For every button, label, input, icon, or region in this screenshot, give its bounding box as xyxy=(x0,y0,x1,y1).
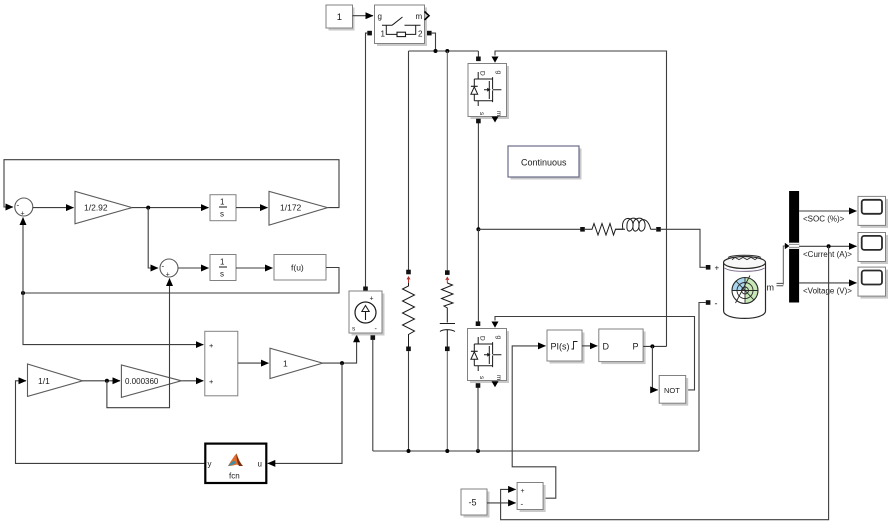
svg-text:P: P xyxy=(633,342,639,352)
ground rail xyxy=(373,450,699,452)
breaker switch icon xyxy=(382,17,421,34)
wire bus down to R branch top xyxy=(408,51,410,270)
wire I1 to gain 1/172 xyxy=(236,207,268,209)
node N1 xyxy=(340,361,344,365)
NOT block xyxy=(662,378,689,406)
powergui Continuous block xyxy=(511,149,582,180)
svg-text:u: u xyxy=(258,460,262,469)
battery - port square xyxy=(706,300,711,305)
svg-text:g: g xyxy=(378,12,382,21)
M2 gate arrow from NOT xyxy=(495,317,695,390)
wire f(u) output loop down-left xyxy=(23,268,339,294)
svg-text:Continuous: Continuous xyxy=(521,158,567,168)
svg-text:m: m xyxy=(416,12,423,21)
svg-text:+: + xyxy=(209,341,214,350)
Fcn block f(u) xyxy=(274,255,326,281)
svg-text:PI(s): PI(s) xyxy=(551,342,570,352)
svg-text:1/172: 1/172 xyxy=(280,203,302,213)
wire bus to scope Voltage xyxy=(799,282,856,284)
wire voltage source - to rail xyxy=(372,340,374,451)
svg-text:+: + xyxy=(21,211,25,218)
wire P output to node N3 xyxy=(643,345,666,347)
battery block xyxy=(724,255,766,318)
series RL branch (resistor + inductor) xyxy=(585,218,656,235)
svg-text:m: m xyxy=(767,283,775,293)
bus signal glyph xyxy=(777,283,784,285)
R branch (series RLC branch R) xyxy=(403,270,415,351)
wire feedback loop from gain 1/172 to sum S1 xyxy=(4,160,339,208)
wire N2 down to MOSFET M2 drain xyxy=(477,229,479,325)
M2 source port square xyxy=(476,383,481,388)
add block A1 (+ +) xyxy=(205,331,238,396)
wire gain 1/2.92 to integrator I1 xyxy=(132,207,209,209)
svg-text:0.000360: 0.000360 xyxy=(125,377,159,386)
D-P block xyxy=(601,332,645,365)
svg-text:-: - xyxy=(521,500,524,509)
svg-text:<Current (A)>: <Current (A)> xyxy=(803,250,852,259)
MOSFET M1 block xyxy=(471,66,510,119)
sum S1 xyxy=(15,198,33,216)
svg-text:+: + xyxy=(715,264,720,273)
wire feedback loop from node up into S2 bottom xyxy=(107,279,170,408)
wire bus to scope Current xyxy=(799,245,856,247)
svg-text:D: D xyxy=(479,71,486,76)
M2 m output stub arrow xyxy=(492,381,499,387)
wire fcn y feedback to gain 1/1 xyxy=(16,381,206,464)
battery - wire to rail xyxy=(699,303,706,452)
svg-text:NOT: NOT xyxy=(664,386,680,395)
wire R branch bottom to rail xyxy=(408,351,410,451)
node N2 dot xyxy=(476,227,480,231)
node after gain 1/1 xyxy=(105,379,109,383)
voltage source - port square xyxy=(371,335,376,340)
wire current feedback down-left to sum A2 xyxy=(501,246,829,519)
svg-text:fcn: fcn xyxy=(229,472,240,481)
port square at voltage source + xyxy=(363,287,368,292)
wire N2 right to series RL xyxy=(478,228,582,230)
svg-text:+: + xyxy=(166,272,170,279)
svg-text:m: m xyxy=(495,111,502,116)
wire gain 1/1 to gain 0.000360 xyxy=(83,380,120,382)
node dots on bus xyxy=(434,49,438,53)
svg-text:-: - xyxy=(715,298,718,308)
wire node up into S1 bottom xyxy=(22,218,24,294)
wire PI to D-P block xyxy=(582,345,597,347)
svg-text:D: D xyxy=(479,336,486,341)
svg-text:1: 1 xyxy=(381,30,386,39)
svg-text:<SOC (%)>: <SOC (%)> xyxy=(803,215,845,224)
svg-text:2: 2 xyxy=(418,30,423,39)
wire C branch bottom to rail xyxy=(446,351,448,451)
integrator I2 (1/s) xyxy=(210,255,236,281)
svg-text:y: y xyxy=(208,460,212,469)
gain 1/172 xyxy=(269,191,328,225)
wire N1 down to fcn u input xyxy=(268,363,342,463)
bus wire y=51 (electrical node) xyxy=(409,50,479,52)
scope SOC xyxy=(861,199,889,228)
voltage source block Vs xyxy=(352,294,385,336)
series RL branch left port square xyxy=(580,227,585,232)
M2 source wire down to rail xyxy=(477,386,479,452)
svg-text:+: + xyxy=(370,296,374,303)
MATLAB Function block fcn xyxy=(205,444,266,483)
constant -5 xyxy=(464,492,490,518)
M1 source port square xyxy=(476,119,481,124)
scope Current xyxy=(861,235,889,264)
wire breaker port1 down to voltage source + xyxy=(366,33,368,287)
svg-text:f(u): f(u) xyxy=(291,263,304,273)
svg-text:1/2.92: 1/2.92 xyxy=(84,203,108,213)
wire constant to breaker g input xyxy=(353,15,374,17)
node on f(u) loop xyxy=(21,291,25,295)
series RL right port square xyxy=(656,227,661,232)
breaker block xyxy=(377,8,427,47)
wire sum A2 output up to PI input xyxy=(512,346,556,498)
svg-text:D: D xyxy=(603,342,610,352)
breaker port 2 square xyxy=(427,31,432,36)
gain 1/2.92 xyxy=(75,191,132,223)
svg-text:g: g xyxy=(495,336,502,340)
M2 drain port square xyxy=(476,321,481,326)
rail node dots xyxy=(407,449,411,453)
node N3 xyxy=(650,344,654,348)
svg-text:1/1: 1/1 xyxy=(38,376,50,386)
svg-text:-: - xyxy=(162,262,165,271)
wire breaker port2 to node bus xyxy=(432,33,436,51)
breaker m output port chevron xyxy=(425,12,430,20)
integrator I1 (1/s) xyxy=(210,195,236,221)
gain G1 (1) xyxy=(270,348,323,378)
svg-text:m: m xyxy=(495,375,502,380)
svg-text:1: 1 xyxy=(220,258,225,267)
sum A2 block (+ -) xyxy=(520,485,546,512)
M1 source wire down to node N2 xyxy=(477,121,479,229)
wire bus down to C branch top xyxy=(446,51,448,271)
svg-text:1: 1 xyxy=(283,358,288,368)
node after gain 1/2.92 xyxy=(146,206,150,210)
MOSFET M2 block xyxy=(470,331,509,383)
PI controller block xyxy=(550,333,585,364)
M1 gate arrow (signal from P via top) xyxy=(495,51,667,346)
gain 0.000360 xyxy=(121,365,181,397)
constant block 1 xyxy=(329,8,355,31)
wire I2 to f(u) xyxy=(236,267,273,269)
sum S2 xyxy=(160,259,178,277)
svg-text:s: s xyxy=(220,210,224,219)
svg-text:+: + xyxy=(209,377,214,386)
wire m up into bus selector xyxy=(783,246,785,285)
wire N3 down to NOT input xyxy=(652,346,657,390)
wire node down to add block A1 first input xyxy=(23,293,203,345)
svg-text:1: 1 xyxy=(337,12,342,23)
wire bus down to MOSFET M1 drain xyxy=(477,51,479,60)
breaker port 1 square xyxy=(367,31,372,36)
bus selector bar xyxy=(789,191,799,303)
M1 m output stub arrow xyxy=(494,116,496,119)
wire branch to sum S2 xyxy=(148,208,158,268)
gain 1/1 xyxy=(28,364,83,396)
battery + port square xyxy=(706,265,711,270)
wire S2 to integrator I2 xyxy=(178,267,209,269)
C branch (series RC branch) xyxy=(440,270,455,351)
svg-text:s: s xyxy=(220,270,224,279)
wire bus to scope SOC xyxy=(799,210,856,212)
svg-text:-5: -5 xyxy=(469,498,477,508)
wire G1 output to node N1 xyxy=(323,335,357,363)
wire RL to battery + xyxy=(661,229,706,267)
svg-text:-: - xyxy=(17,201,20,210)
node on current wire xyxy=(827,244,831,248)
wire A1 to gain G1 xyxy=(238,362,269,364)
svg-text:1: 1 xyxy=(220,198,225,207)
scope Voltage xyxy=(861,270,889,299)
M1 drain port square xyxy=(476,57,481,62)
svg-text:+: + xyxy=(521,488,525,495)
wire S1 to gain 1/2.92 xyxy=(33,207,74,209)
svg-text:g: g xyxy=(495,71,502,75)
wire 0.000360 to A1 second input xyxy=(181,380,203,382)
wire -5 to sum A2 second input xyxy=(487,502,516,504)
svg-text:<Voltage (V)>: <Voltage (V)> xyxy=(803,286,852,295)
